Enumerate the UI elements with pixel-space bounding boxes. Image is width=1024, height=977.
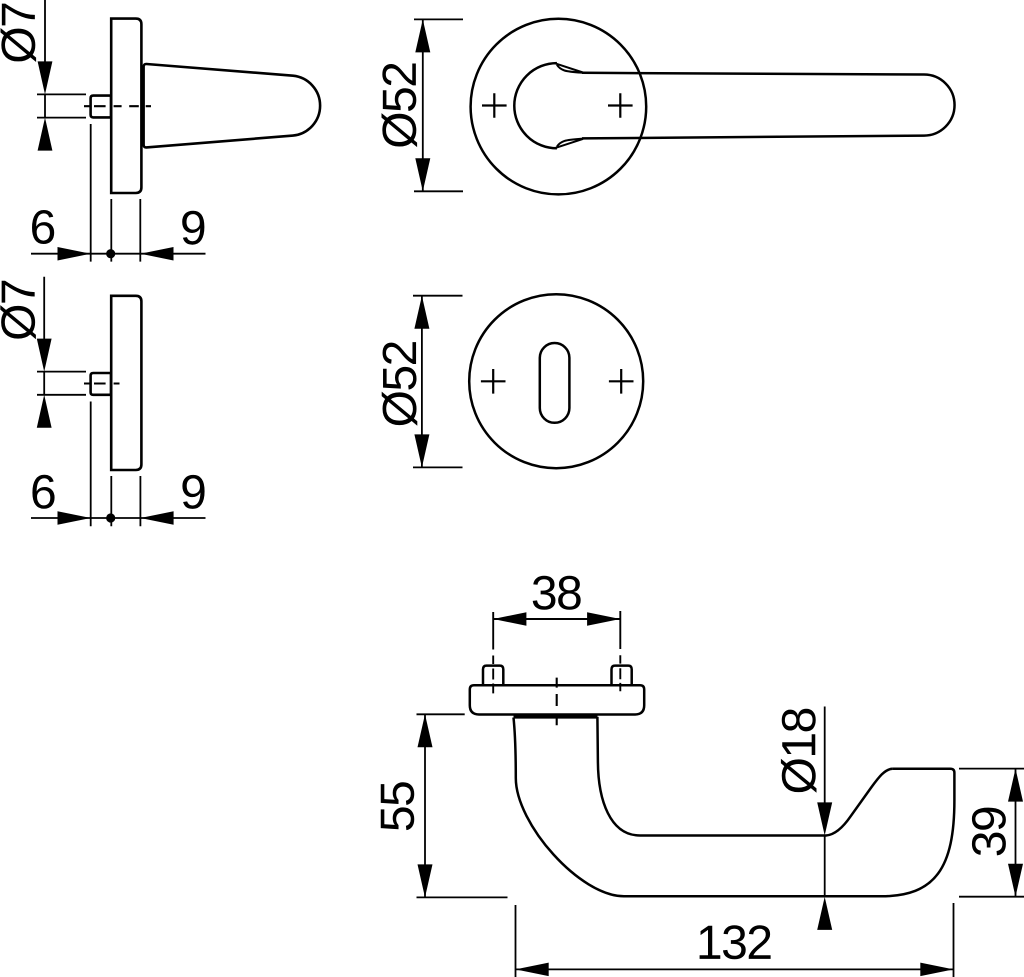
dimension Ø18 arrow top E — [817, 802, 832, 835]
dimension 9 arrow C — [140, 511, 173, 525]
dimension Ø7 extension ticks C — [37, 372, 86, 395]
label Ø7 A — [1, 4, 37, 62]
screw centerline left E — [492, 612, 494, 693]
screw cross right D — [609, 369, 634, 394]
handle neck cone A — [144, 64, 320, 147]
dimension 132 line E — [516, 968, 954, 970]
label Ø52 D — [382, 342, 418, 426]
dimension Ø18 arrow bottom E — [817, 897, 832, 930]
screw stud left E — [483, 666, 503, 686]
neck-lever fillet bottom B — [555, 139, 583, 149]
dimension Ø7 arrow top C — [37, 339, 52, 372]
dimension Ø7 extension ticks A — [37, 94, 86, 117]
plate centerline E — [556, 678, 558, 726]
label 9 C — [182, 475, 204, 509]
dimension 132 extension lines E — [516, 903, 954, 977]
dimension 39 line E — [1015, 769, 1017, 897]
dimension 38 line E — [493, 618, 620, 620]
mounting plate E — [470, 685, 644, 714]
handle neck arc B — [514, 63, 557, 148]
dimension Ø52 arrow bottom D — [414, 434, 429, 467]
label 6 C — [32, 475, 54, 509]
handle neck top edge E — [514, 715, 598, 718]
label 55 E — [381, 782, 414, 830]
dimension Ø52 arrow bottom B — [415, 158, 430, 191]
dimension 6/9 line A — [31, 253, 206, 255]
dimension 55 line E — [424, 714, 426, 897]
dimension Ø52 arrow top B — [415, 19, 430, 52]
screw stud right E — [612, 666, 632, 686]
dimension Ø7 line C — [43, 277, 45, 395]
neck-lever fillet top B — [555, 63, 583, 73]
dimension 6/9 extension lines A — [91, 124, 141, 262]
dimension 132 arrow left E — [516, 963, 549, 977]
label 6 A — [32, 210, 54, 244]
dimension 55 arrow bottom E — [418, 864, 433, 897]
keyhole D — [540, 343, 570, 423]
dimension 39 arrow top E — [1008, 769, 1023, 802]
label 38 E — [533, 576, 581, 610]
dimension Ø52 line D — [421, 296, 423, 468]
label Ø52 B — [382, 63, 418, 147]
dimension Ø52 arrow top D — [414, 296, 429, 329]
handle inner contour E — [597, 717, 892, 836]
screw cross left D — [481, 369, 506, 394]
label Ø18 E — [781, 709, 817, 793]
label Ø7 C — [0, 281, 36, 339]
centerline C — [84, 382, 120, 384]
dimension 55 arrow top E — [418, 714, 433, 747]
spindle square A — [91, 96, 111, 118]
handle outer contour E — [514, 718, 955, 897]
screw centerline right E — [619, 611, 621, 691]
dimension Ø52 ticks B — [414, 19, 463, 191]
dimension 39 ticks E — [959, 769, 1024, 897]
screw cross right B — [608, 93, 633, 118]
rose profile side view C — [111, 296, 141, 470]
dimension 6/9 line C — [31, 517, 206, 519]
label 39 E — [972, 808, 1006, 856]
key rose circle D — [469, 294, 643, 468]
centerline A — [84, 105, 151, 107]
dimension 6 arrow C — [58, 511, 91, 525]
dimension 6/9 extension lines C — [91, 402, 141, 527]
lever outline B — [582, 73, 955, 139]
dimension 55 ticks E — [417, 714, 508, 897]
label 9 A — [182, 211, 204, 245]
dimension 38 arrow right E — [587, 612, 620, 626]
dimension 39 arrow bottom E — [1008, 864, 1023, 897]
rose circle B — [471, 19, 647, 195]
junction dot C — [106, 513, 115, 522]
label 132 E — [700, 925, 771, 959]
rose profile side view A — [111, 19, 141, 193]
dimension Ø18 line E — [824, 707, 826, 897]
dimension Ø7 arrow bottom A — [38, 118, 53, 151]
dimension Ø7 arrow bottom C — [37, 395, 52, 428]
dimension 6 arrow A — [58, 247, 91, 261]
dimension Ø7 line A — [44, 0, 46, 118]
spindle square C — [91, 373, 111, 395]
screw cross left B — [482, 93, 507, 118]
dimension Ø52 line B — [422, 19, 424, 191]
dimension Ø52 ticks D — [413, 296, 463, 468]
dimension 9 arrow A — [140, 247, 173, 261]
junction dot A — [106, 249, 115, 258]
dimension 38 arrow left E — [493, 612, 526, 626]
dimension Ø7 arrow top A — [38, 61, 53, 94]
dimension 132 arrow right E — [920, 963, 953, 977]
